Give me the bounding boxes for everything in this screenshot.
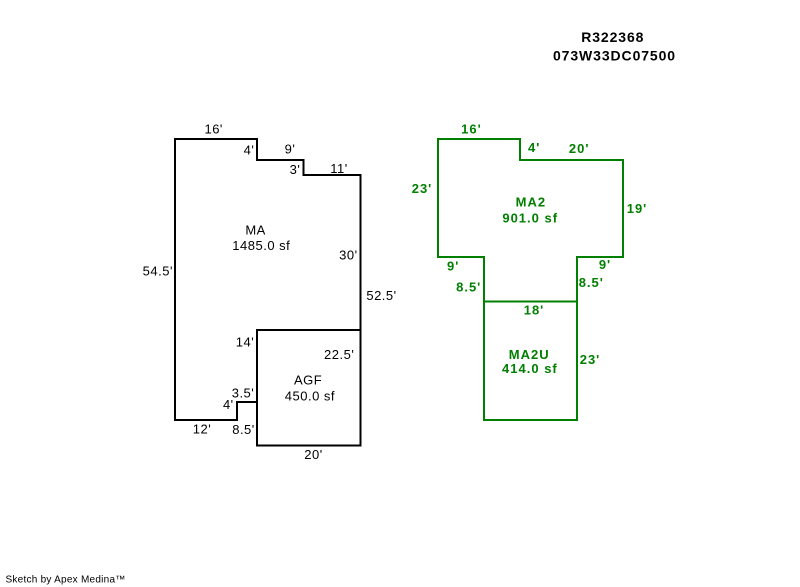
AGF garage outline (black rectangle) [257, 330, 361, 446]
svg-text:16': 16' [204, 122, 222, 137]
svg-text:MA2: MA2 [516, 194, 546, 209]
svg-text:MA: MA [245, 222, 266, 237]
svg-text:MA2U: MA2U [509, 347, 550, 362]
svg-text:8.5': 8.5' [579, 275, 604, 290]
svg-text:8.5': 8.5' [456, 279, 481, 294]
svg-text:8.5': 8.5' [232, 422, 255, 437]
svg-text:9': 9' [599, 257, 611, 272]
svg-text:23': 23' [580, 352, 601, 367]
svg-text:9': 9' [447, 259, 459, 274]
svg-text:073W33DC07500: 073W33DC07500 [553, 47, 676, 63]
svg-text:14': 14' [236, 335, 254, 350]
svg-text:23': 23' [412, 181, 433, 196]
svg-text:3': 3' [290, 162, 301, 177]
svg-text:19': 19' [627, 201, 648, 216]
svg-text:9': 9' [285, 142, 296, 157]
svg-text:12': 12' [193, 422, 211, 437]
svg-text:4': 4' [223, 397, 234, 412]
MA2U upper floor outline (green rectangle) [484, 302, 577, 421]
svg-text:20': 20' [569, 141, 590, 156]
svg-text:11': 11' [330, 161, 347, 176]
svg-text:414.0 sf: 414.0 sf [502, 361, 558, 376]
svg-text:450.0 sf: 450.0 sf [285, 388, 335, 403]
svg-text:20': 20' [304, 447, 322, 462]
svg-text:54.5': 54.5' [143, 263, 173, 278]
svg-text:16': 16' [461, 121, 482, 136]
svg-text:4': 4' [528, 140, 540, 155]
MA2 second floor outline (green polygon) [438, 139, 623, 302]
svg-text:AGF: AGF [294, 372, 322, 387]
svg-text:18': 18' [524, 302, 545, 317]
svg-text:30': 30' [339, 248, 357, 263]
svg-text:901.0 sf: 901.0 sf [502, 211, 558, 226]
svg-text:3.5': 3.5' [232, 385, 255, 400]
svg-text:Sketch by Apex Medina™: Sketch by Apex Medina™ [6, 575, 126, 586]
svg-text:22.5': 22.5' [324, 347, 354, 362]
svg-text:1485.0 sf: 1485.0 sf [232, 238, 290, 253]
MA building outline (black polygon) [175, 139, 361, 420]
svg-text:4': 4' [244, 142, 255, 157]
svg-text:52.5': 52.5' [366, 288, 396, 303]
svg-text:R322368: R322368 [581, 29, 644, 45]
